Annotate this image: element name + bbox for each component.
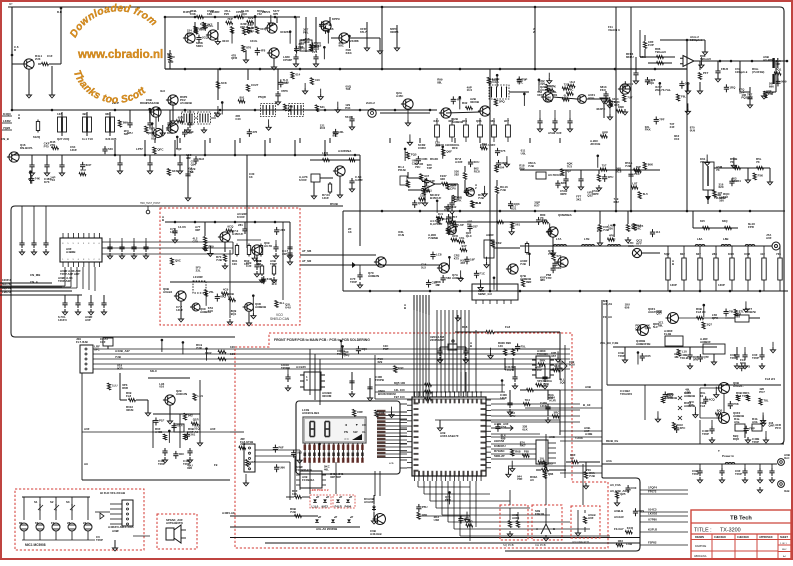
svg-text:0P5: 0P5 (273, 12, 279, 16)
svg-text:7UB: 7UB (543, 382, 549, 386)
svg-text:30PF: 30PF (560, 192, 567, 196)
svg-text:1L1 71U: 1L1 71U (82, 137, 93, 141)
svg-text:PPU: PPU (445, 498, 451, 502)
svg-text:8F: 8F (19, 521, 23, 525)
svg-text:500: 500 (542, 218, 547, 222)
svg-text:U7P80: U7P80 (648, 518, 657, 522)
svg-text:65R: 65R (178, 115, 184, 119)
svg-text:27K: 27K (50, 143, 56, 147)
svg-text:F0: F0 (51, 521, 55, 525)
svg-text:CFR: CFR (635, 326, 642, 330)
svg-text:8 0UF: 8 0UF (237, 215, 245, 219)
svg-text:A4UF0NA: A4UF0NA (338, 149, 352, 153)
svg-text:Q0C: Q0C (175, 258, 182, 262)
svg-text:S2: S2 (50, 500, 54, 504)
svg-text:QPK: QPK (712, 316, 719, 320)
svg-text:6.5UF: 6.5UF (299, 178, 307, 182)
svg-text:967: 967 (551, 354, 556, 358)
svg-text:A09LB: A09LB (614, 509, 623, 513)
svg-text:Q0Q: Q0Q (343, 353, 350, 357)
svg-text:T45P: T45P (735, 472, 742, 476)
svg-text:7Q26: 7Q26 (3, 126, 10, 130)
svg-text:575: 575 (501, 149, 506, 153)
svg-text:RF9: RF9 (452, 146, 458, 150)
svg-text:3RC: 3RC (554, 410, 561, 414)
svg-text:A0C2C9.0B1: A0C2C9.0B1 (302, 411, 320, 415)
svg-text:PF7: PF7 (703, 71, 709, 75)
svg-text:86K: 86K (648, 163, 654, 167)
svg-text:A90C2N: A90C2N (176, 392, 187, 396)
svg-text:24C: 24C (636, 226, 642, 230)
svg-text:A9: A9 (84, 462, 88, 466)
svg-text:F6L: F6L (681, 95, 686, 99)
svg-text:319: 319 (305, 40, 310, 44)
svg-text:328: 328 (440, 177, 445, 181)
svg-text:L7B: L7B (584, 237, 589, 241)
svg-text:QK2: QK2 (496, 241, 502, 245)
svg-text:FF072: FF072 (648, 490, 657, 494)
svg-text:A0P: A0P (85, 318, 91, 322)
svg-text:7UB: 7UB (115, 355, 121, 359)
svg-text:T90um5: T90um5 (655, 50, 666, 54)
svg-text:28: 28 (67, 521, 71, 525)
svg-text:PQ1: PQ1 (776, 68, 782, 72)
svg-text:CLR: CLR (247, 26, 254, 30)
svg-text:7UB: 7UB (290, 510, 296, 514)
svg-text:876: 876 (246, 46, 251, 50)
svg-text:CH PCB: CH PCB (535, 543, 546, 547)
svg-text:FL8 A0: FL8 A0 (696, 310, 706, 314)
svg-text:LED PCB X 2: LED PCB X 2 (310, 488, 329, 492)
svg-text:T45P: T45P (702, 432, 709, 436)
svg-text:F0-0A7: F0-0A7 (614, 527, 624, 531)
svg-text:4U6: 4U6 (548, 84, 554, 88)
svg-text:8R1: 8R1 (552, 93, 558, 97)
svg-text:FL8: FL8 (700, 404, 706, 408)
svg-text:L6P: L6P (458, 223, 463, 227)
svg-text:7PF: 7PF (659, 117, 665, 121)
svg-text:1KUL: 1KUL (250, 39, 258, 43)
svg-text:A0a: A0a (734, 420, 740, 424)
svg-text:A45CUF: A45CUF (232, 232, 243, 236)
svg-text:6CU: 6CU (474, 160, 480, 164)
svg-text:KL8: KL8 (475, 201, 481, 205)
svg-text:30P: 30P (636, 165, 641, 169)
svg-text:7UB: 7UB (589, 474, 595, 478)
svg-text:A90B0B: A90B0B (684, 394, 695, 398)
svg-text:A45C: A45C (396, 94, 404, 98)
svg-text:50RL2P: 50RL2P (494, 454, 505, 458)
svg-text:C0K: C0K (190, 12, 197, 16)
svg-text:(7L0F1B): (7L0F1B) (752, 70, 764, 74)
svg-text:78L: 78L (764, 399, 769, 403)
svg-text:5PC: 5PC (537, 379, 544, 383)
svg-text:K2FU2: K2FU2 (648, 528, 658, 532)
svg-text:P08: P08 (733, 402, 739, 406)
svg-text:PPL: PPL (303, 30, 309, 34)
svg-text:Q1R: Q1R (193, 418, 200, 422)
svg-text:U1C: U1C (554, 364, 561, 368)
svg-text:5R0: 5R0 (693, 358, 699, 362)
svg-text:2Q0: 2Q0 (560, 380, 566, 384)
svg-text:6LR: 6LR (149, 127, 155, 131)
svg-text:64LC: 64LC (150, 369, 158, 373)
svg-text:KQ9: KQ9 (648, 81, 654, 85)
svg-text:RC8: RC8 (474, 169, 480, 173)
svg-text:67: 67 (35, 521, 39, 525)
svg-text:8QU: 8QU (569, 363, 575, 367)
svg-text:016: 016 (159, 385, 164, 389)
svg-text:572: 572 (557, 254, 562, 258)
svg-text:KUR: KUR (549, 399, 556, 403)
svg-text:827: 827 (696, 252, 701, 256)
svg-text:Power In: Power In (722, 454, 734, 458)
svg-text:C1F: C1F (47, 54, 53, 58)
svg-text:1402: 1402 (205, 351, 212, 355)
svg-text:R32: R32 (451, 205, 457, 209)
svg-text:8FC: 8FC (94, 347, 100, 351)
svg-text:4FF: 4FF (456, 97, 461, 101)
svg-text:014: 014 (295, 72, 300, 76)
svg-text:700: 700 (586, 468, 591, 472)
svg-text:A0A: A0A (606, 459, 613, 463)
svg-text:329: 329 (685, 82, 690, 86)
svg-text:100kph.k: 100kph.k (735, 70, 748, 74)
svg-text:K75: K75 (454, 257, 460, 261)
svg-text:PFU: PFU (775, 426, 781, 430)
svg-text:SQ PCB: SQ PCB (503, 543, 514, 547)
svg-text:PU7: PU7 (759, 390, 765, 394)
svg-text:R89: R89 (519, 167, 525, 171)
svg-text:F0B1B: F0B1B (535, 512, 544, 516)
svg-text:1LU: 1LU (112, 384, 117, 388)
svg-text:⊂⊃: ⊂⊃ (344, 437, 350, 441)
svg-text:R7196C: R7196C (494, 449, 506, 453)
svg-text:R6R: R6R (122, 386, 129, 390)
svg-text:A0_F0A: A0_F0A (610, 483, 622, 487)
svg-text:L1L0: L1L0 (312, 505, 319, 509)
svg-text:F9: F9 (214, 463, 218, 467)
svg-text:041: 041 (628, 82, 633, 86)
svg-text:6LL: 6LL (279, 301, 284, 305)
svg-text:6CP: 6CP (86, 163, 92, 167)
svg-text:U4U: U4U (285, 305, 291, 309)
svg-text:T45P: T45P (96, 538, 103, 542)
svg-text:261: 261 (190, 432, 195, 436)
svg-text:P57: P57 (768, 92, 774, 96)
svg-text:25L: 25L (209, 290, 214, 294)
svg-text:T45P: T45P (618, 354, 625, 358)
svg-text:LC8: LC8 (436, 253, 442, 257)
svg-text:9Q1: 9Q1 (231, 312, 237, 316)
svg-text:7UBNB: 7UBNB (428, 236, 438, 240)
svg-text:631: 631 (320, 105, 325, 109)
svg-text:A0F: A0F (368, 500, 374, 504)
svg-text:2PU: 2PU (510, 414, 516, 418)
svg-text:01U: 01U (81, 168, 86, 172)
svg-text:U0L: U0L (459, 236, 465, 240)
svg-text:U2L: U2L (339, 130, 345, 134)
svg-text:41F: 41F (760, 252, 765, 256)
svg-text:C0RU: C0RU (418, 146, 426, 150)
svg-text:MT: MT (9, 2, 13, 6)
svg-text:REV: REV (782, 549, 787, 551)
svg-text:Q7L: Q7L (418, 201, 424, 205)
svg-text:R6.6K: R6.6K (430, 157, 439, 161)
svg-text:7K4: 7K4 (525, 398, 531, 402)
svg-text:KFK: KFK (452, 234, 459, 238)
svg-text:Q06M0BA: Q06M0BA (558, 213, 573, 217)
svg-text:FKK: FKK (645, 128, 652, 132)
svg-text:36C: 36C (105, 112, 111, 116)
svg-text:Q32: Q32 (587, 193, 593, 197)
svg-text:1.0B: 1.0B (626, 542, 632, 546)
svg-text:7KP: 7KP (227, 17, 233, 21)
svg-text:8Q5: 8Q5 (717, 408, 723, 412)
svg-text:AT_M6: AT_M6 (302, 249, 312, 253)
svg-text:7RF: 7RF (517, 477, 523, 481)
svg-text:R7C: R7C (517, 81, 524, 85)
svg-text:79L: 79L (729, 310, 734, 314)
svg-text:7UB: 7UB (216, 258, 222, 262)
svg-text:A0: A0 (570, 456, 574, 460)
svg-text:9CP: 9CP (117, 366, 123, 370)
svg-text:QP4: QP4 (451, 183, 457, 187)
svg-text:RK7: RK7 (520, 443, 526, 447)
svg-text:VOLUME PCB: VOLUME PCB (572, 540, 589, 544)
svg-text:P494: P494 (345, 505, 352, 509)
svg-text:050: 050 (199, 28, 204, 32)
svg-text:Q2C: Q2C (667, 395, 674, 399)
svg-text:137: 137 (57, 112, 62, 116)
svg-text:A4UB_A07: A4UB_A07 (115, 349, 130, 353)
svg-text:KU6: KU6 (740, 361, 746, 365)
svg-text:T45P: T45P (350, 280, 357, 284)
svg-text:T45A0F0: T45A0F0 (620, 392, 632, 396)
svg-text:37P6: 37P6 (281, 89, 288, 93)
svg-text:L8B: L8B (723, 237, 728, 241)
svg-text:KP9: KP9 (638, 509, 644, 513)
svg-text:01U: 01U (208, 309, 213, 313)
svg-text:C00: C00 (631, 486, 637, 490)
svg-text:30C: 30C (179, 452, 185, 456)
svg-text:A90B0B: A90B0B (255, 305, 266, 309)
svg-text:F5L: F5L (521, 344, 526, 348)
svg-text:51Q: 51Q (194, 427, 200, 431)
svg-text:257: 257 (473, 225, 478, 229)
svg-text:B: B (162, 218, 164, 222)
svg-text:376: 376 (252, 130, 257, 134)
svg-text:583: 583 (446, 276, 451, 280)
svg-text:19F: 19F (470, 257, 475, 261)
svg-text:U10: U10 (674, 137, 680, 141)
svg-text:298: 298 (240, 442, 245, 446)
svg-text:A0 4P6: A0 4P6 (763, 58, 773, 62)
svg-text:14UF: 14UF (176, 308, 183, 312)
svg-text:T45P: T45P (692, 472, 699, 476)
svg-text:L25: L25 (284, 80, 289, 84)
svg-text:006: 006 (689, 403, 694, 407)
svg-text:A40FLA0: A40FLA0 (222, 511, 235, 515)
svg-text:70U: 70U (415, 165, 420, 169)
svg-text:JR.5UB: JR.5UB (590, 142, 600, 146)
svg-text:L0100F: L0100F (193, 275, 203, 279)
svg-text:67L7: 67L7 (360, 30, 367, 34)
svg-text:CN_A: CN_A (30, 280, 39, 284)
svg-text:UL3: UL3 (570, 80, 576, 84)
svg-text:T: T (718, 449, 720, 453)
svg-text:14UF: 14UF (70, 148, 77, 152)
svg-text:38U: 38U (540, 278, 545, 282)
svg-text:K0R: K0R (728, 252, 735, 256)
svg-text:FL8 2/4: FL8 2/4 (765, 377, 775, 381)
svg-text:PK7: PK7 (452, 215, 458, 219)
svg-text:5PQ: 5PQ (499, 99, 506, 103)
svg-text:QLC: QLC (466, 234, 473, 238)
svg-text:FKU: FKU (600, 88, 606, 92)
svg-text:74K: 74K (35, 177, 41, 181)
svg-text:100: 100 (292, 492, 297, 496)
svg-text:CRF: CRF (357, 410, 363, 414)
svg-text:283: 283 (712, 252, 717, 256)
svg-text:7UB: 7UB (500, 188, 506, 192)
svg-text:TITLE :: TITLE : (694, 528, 712, 534)
svg-text:HSD_TEST_POINT: HSD_TEST_POINT (140, 203, 161, 205)
svg-text:A0L-A0 200F0B: A0L-A0 200F0B (316, 527, 337, 531)
svg-text:80C: 80C (332, 133, 338, 137)
svg-text:Q7F: Q7F (703, 355, 709, 359)
svg-text:A40.9LB: A40.9LB (370, 532, 382, 536)
svg-text:A4B0B: A4B0B (66, 250, 75, 254)
svg-text:UQF: UQF (188, 130, 194, 134)
svg-text:CP33P: CP33P (283, 58, 292, 62)
svg-text:410: 410 (315, 78, 320, 82)
svg-text:8RL: 8RL (556, 266, 562, 270)
svg-text:A0: A0 (530, 478, 534, 482)
svg-text:A0F: A0F (210, 427, 216, 431)
svg-text:LRQ: LRQ (322, 151, 329, 155)
svg-text:CN_MB: CN_MB (30, 273, 40, 277)
svg-text:6CQ: 6CQ (260, 27, 267, 31)
svg-text:587: 587 (124, 132, 129, 136)
svg-text:14.U6: 14.U6 (178, 225, 186, 229)
svg-text:9F7: 9F7 (504, 119, 509, 123)
svg-text:F1C: F1C (479, 271, 485, 275)
svg-text:CF5: CF5 (193, 239, 199, 243)
svg-text:K08CRU: K08CRU (494, 444, 506, 448)
svg-text:U38: U38 (434, 518, 440, 522)
svg-text:FL7.0UB: FL7.0UB (76, 340, 88, 344)
svg-text:2CQ: 2CQ (202, 36, 209, 40)
svg-text:100: 100 (230, 345, 235, 349)
svg-text:K73: K73 (44, 180, 50, 184)
svg-text:A90B2N: A90B2N (452, 276, 463, 280)
svg-text:Q66: Q66 (476, 119, 482, 123)
svg-text:A0b: A0b (752, 420, 758, 424)
svg-text:T40.9LB: T40.9LB (680, 356, 691, 360)
svg-text:130P: 130P (718, 283, 725, 287)
svg-text:T45P: T45P (752, 440, 759, 444)
svg-text:Q86: Q86 (548, 472, 554, 476)
svg-text:612Q: 612Q (33, 135, 41, 139)
svg-text:0LC: 0LC (784, 456, 790, 460)
svg-text:SW: SW (353, 430, 358, 434)
svg-text:L7A: L7A (556, 237, 562, 241)
svg-text:P1F: P1F (159, 418, 165, 422)
svg-text:696: 696 (769, 84, 774, 88)
svg-text:3.3UF: 3.3UF (355, 178, 363, 182)
svg-text:A0F: A0F (588, 516, 594, 520)
svg-text:B45CUF: B45CUF (430, 196, 441, 200)
svg-text:F68: F68 (524, 450, 529, 454)
svg-text:K65: K65 (645, 354, 651, 358)
svg-text:Q6F: Q6F (446, 149, 452, 153)
svg-text:14UF0: 14UF0 (58, 318, 67, 322)
svg-text:A0.7K: A0.7K (264, 244, 273, 248)
svg-text:12R: 12R (685, 390, 691, 394)
svg-text:B: B (404, 306, 406, 310)
svg-text:8Q5 100: 8Q5 100 (394, 381, 405, 385)
svg-text:A90B0F0B: A90B0F0B (636, 342, 650, 346)
svg-text:RKQ: RKQ (492, 78, 499, 82)
svg-text:KFF: KFF (636, 241, 642, 245)
svg-text:DRAWN: DRAWN (695, 536, 704, 539)
svg-text:2U3: 2U3 (35, 57, 41, 61)
svg-text:604: 604 (499, 166, 504, 170)
svg-text:10L: 10L (540, 456, 545, 460)
svg-text:0U9: 0U9 (690, 128, 696, 132)
svg-text:499: 499 (501, 436, 506, 440)
svg-text:TB Tech: TB Tech (730, 516, 752, 522)
svg-text:5Q0: 5Q0 (361, 347, 367, 351)
svg-text:SHEET: SHEET (780, 536, 789, 539)
svg-text:5L5: 5L5 (421, 266, 426, 270)
svg-text:F69: F69 (379, 410, 384, 414)
svg-text:4F8: 4F8 (260, 49, 265, 53)
svg-text:7UB: 7UB (478, 196, 484, 200)
svg-text:0Q9: 0Q9 (781, 79, 787, 83)
svg-text:F92: F92 (482, 142, 487, 146)
svg-text:UP2: UP2 (280, 228, 286, 232)
svg-text:369: 369 (288, 104, 293, 108)
svg-text:A0_A9: A0_A9 (603, 302, 612, 306)
svg-text:236: 236 (608, 227, 613, 231)
svg-text:U0L: U0L (521, 151, 527, 155)
svg-text:169: 169 (207, 12, 212, 16)
svg-text:21F: 21F (597, 229, 602, 233)
svg-text:▼: ▼ (355, 423, 358, 427)
svg-text:Q25: Q25 (620, 492, 626, 496)
svg-text:R68: R68 (515, 450, 521, 454)
svg-text:B0UF/300UM: B0UF/300UM (378, 392, 396, 396)
svg-text:R5UB: R5UB (330, 202, 338, 206)
svg-text:7U7: 7U7 (627, 95, 633, 99)
svg-text:P69: P69 (208, 244, 214, 248)
svg-text:2C6: 2C6 (320, 126, 326, 130)
svg-text:FUP: FUP (648, 43, 654, 47)
svg-text:710: 710 (50, 178, 55, 182)
svg-text:FL4B: FL4B (664, 332, 671, 336)
svg-text:30P: 30P (195, 228, 200, 232)
svg-text:A90B2N: A90B2N (368, 274, 379, 278)
svg-text:FK8: FK8 (316, 43, 322, 47)
svg-text:89R: 89R (526, 280, 532, 284)
svg-text:30UN: 30UN (126, 408, 133, 412)
svg-text:Q77: Q77 (656, 312, 662, 316)
svg-text:49Q: 49Q (187, 169, 193, 173)
svg-text:CHECKED: CHECKED (737, 536, 749, 539)
svg-text:P34: P34 (345, 106, 351, 110)
